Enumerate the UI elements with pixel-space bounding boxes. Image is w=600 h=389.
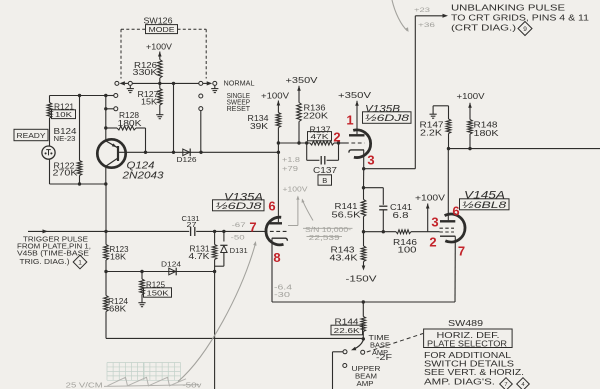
annotation +1.8 +79 [282, 157, 300, 173]
svg-text:3: 3 [431, 215, 438, 230]
junction C137 left [305, 141, 308, 144]
svg-text:9: 9 [523, 26, 527, 33]
junction base wire / plate line [277, 151, 280, 154]
wire unblanking riser [414, 16, 416, 169]
wire trigger to C131 [106, 230, 189, 232]
tube V145A grid row2 [440, 231, 455, 233]
svg-text:3: 3 [367, 153, 374, 168]
tube V135A cathode lead [271, 238, 273, 302]
junction contact row3 tap [104, 107, 107, 110]
svg-text:15K: 15K [141, 98, 158, 107]
svg-text:7: 7 [249, 220, 256, 235]
resistor R122 [53, 96, 82, 185]
pin 7 of V145A [458, 244, 465, 259]
switch SW126 right contact row3 [199, 107, 203, 153]
junction R126 line / mode wire [158, 82, 161, 85]
svg-text:22.6K: 22.6K [334, 326, 360, 335]
tube V145A cathode [440, 235, 455, 237]
pin 7 of V135A [249, 220, 256, 235]
pin 6 of V145A [452, 204, 459, 219]
svg-text:+100V: +100V [261, 92, 290, 101]
junction R137 right [337, 141, 340, 144]
tube V145A cathode lead [454, 236, 456, 302]
svg-text:D131: D131 [230, 246, 248, 255]
wire R136 to grid bus [298, 122, 300, 144]
ground at R127 [156, 112, 163, 119]
switch SW126 left contact row2 [106, 94, 118, 98]
annotation -50v [182, 381, 201, 389]
annotation -6.4 -30 [274, 285, 292, 300]
wire bus to trigger junction [105, 184, 107, 231]
wire R137 to grid [334, 142, 349, 144]
label V135B [365, 104, 400, 115]
junction R128 tap [104, 126, 107, 129]
svg-text:6: 6 [268, 199, 275, 214]
pin 2 of V145A [429, 235, 436, 250]
junction grid wire tap [277, 141, 280, 144]
svg-text:10K: 10K [55, 110, 72, 119]
diode D131 [215, 231, 248, 266]
svg-text:180K: 180K [118, 119, 143, 128]
svg-text:18K: 18K [110, 253, 127, 262]
value 10K boxed [52, 110, 76, 119]
wire R141 to grid bus [363, 217, 365, 232]
diode D124 [161, 262, 181, 276]
svg-text:(CRT DIAG.): (CRT DIAG.) [451, 24, 516, 33]
note for additional switch details [424, 350, 524, 386]
junction Q124 collector bus [104, 182, 107, 185]
junction R131 top [213, 230, 216, 233]
svg-text:½6BL8: ½6BL8 [462, 200, 507, 211]
waveform graticule [107, 363, 181, 381]
svg-text:27: 27 [187, 222, 197, 229]
svg-text:270K: 270K [53, 169, 79, 178]
svg-text:+79: +79 [282, 166, 298, 173]
wire cathode to unblanking riser [364, 168, 416, 170]
value 1/26DJ8 boxed (V135A) [213, 200, 265, 212]
svg-text:TRIG. DIAG.): TRIG. DIAG.) [20, 259, 70, 266]
label TIME BASE AMP [369, 333, 391, 357]
label NORMAL [224, 78, 255, 87]
svg-text:330K: 330K [133, 68, 159, 77]
svg-text:22,539: 22,539 [309, 233, 340, 242]
wire mode row [132, 82, 199, 84]
svg-text:-150V: -150V [346, 274, 377, 284]
resistor R137 [310, 126, 335, 146]
svg-text:4.7K: 4.7K [189, 252, 211, 261]
svg-text:+100V: +100V [283, 187, 308, 194]
junction R144 bottom [362, 337, 365, 340]
resistor R146 [393, 230, 418, 255]
wire R126 to R127 [159, 78, 161, 89]
value 1/26DJ8 boxed (V135B) [363, 112, 412, 124]
svg-text:B: B [322, 176, 327, 185]
svg-text:1: 1 [78, 259, 82, 266]
junction V135B cathode [362, 167, 365, 170]
annotation arrow gray top [392, 0, 409, 32]
annotation +23 +36 [414, 7, 436, 29]
wire grid bus to R146 [364, 231, 397, 233]
label SINGLE SWEEP RESET [227, 93, 251, 113]
junction R122 top [78, 94, 81, 97]
node +100V at V145A grid [415, 194, 446, 232]
svg-text:7: 7 [458, 244, 465, 259]
svg-text:+350V: +350V [338, 90, 371, 100]
wire Q124 base to V135A plate line [118, 151, 280, 153]
wire mode row to D126 wire [173, 83, 175, 152]
capacitor C137 loop [307, 143, 339, 165]
switch contact -2F [361, 350, 365, 354]
resistor R147 [420, 106, 451, 149]
svg-text:AMP: AMP [357, 379, 374, 388]
resistor R126 [133, 60, 163, 79]
svg-text:-50: -50 [231, 235, 246, 242]
wire trigger to R123 [105, 231, 107, 244]
svg-text:2N2043: 2N2043 [121, 170, 164, 181]
annotation S/N range [303, 225, 353, 242]
svg-text:6.8: 6.8 [393, 211, 410, 220]
junction R144 top [362, 300, 365, 303]
svg-text:+100V: +100V [457, 92, 486, 101]
label trigger pulse [17, 237, 91, 267]
label B124 NE-23 [54, 126, 77, 143]
svg-text:25 V/CM: 25 V/CM [66, 381, 103, 389]
label V145A [464, 190, 505, 202]
tube V135B envelope [353, 130, 370, 158]
resistor R121 [47, 96, 74, 119]
svg-text:6: 6 [452, 204, 459, 219]
node +350V at R136 [286, 75, 318, 103]
svg-text:+1.8: +1.8 [282, 157, 300, 164]
svg-text:7: 7 [504, 382, 507, 388]
node -150V [346, 262, 377, 284]
pin 3 of V145A [431, 215, 438, 230]
resistor R143 [330, 232, 366, 263]
junction C141 tap [362, 186, 365, 189]
junction C141 bottom [382, 230, 385, 233]
tube V135B grid [345, 142, 365, 144]
wire contact to lower left [333, 352, 344, 389]
svg-text:-6.4: -6.4 [274, 285, 292, 292]
svg-text:D126: D126 [177, 157, 197, 164]
svg-text:150K: 150K [147, 288, 169, 297]
resistor R127 [138, 89, 163, 107]
svg-text:½6DJ8: ½6DJ8 [365, 113, 410, 124]
svg-text:READY: READY [17, 131, 46, 140]
pin 1 of V135B [346, 113, 353, 128]
svg-text:2: 2 [429, 235, 436, 250]
svg-text:PLATE SELECTOR: PLATE SELECTOR [427, 339, 507, 348]
wire Q124 collector lead [105, 166, 107, 184]
svg-text:39K: 39K [250, 122, 269, 131]
switch SW126 label [144, 17, 178, 34]
svg-text:56.5K: 56.5K [332, 211, 362, 220]
wire R127 to ground [159, 105, 161, 112]
transistor Q124 [97, 139, 125, 167]
svg-text:2: 2 [333, 130, 340, 145]
resistor R136 [297, 103, 329, 122]
svg-text:180K: 180K [474, 129, 500, 138]
svg-text:-30: -30 [274, 292, 290, 299]
wire R146 to V145A grid [411, 231, 440, 233]
resistor R124 [104, 272, 129, 314]
svg-text:MODE: MODE [149, 25, 175, 34]
junction mode-D126 [172, 151, 175, 154]
junction D131 top [222, 230, 225, 233]
switch SW126 dashed link right [178, 29, 207, 78]
svg-text:NE-23: NE-23 [54, 134, 76, 143]
node unblanking output [415, 14, 448, 18]
tube V135A grid [264, 230, 287, 232]
junction R128 / base wire [144, 151, 147, 154]
resistor R128 [106, 111, 146, 152]
tube V135A plate [269, 152, 282, 223]
svg-text:AMP. DIAG'S.: AMP. DIAG'S. [424, 376, 495, 386]
tube V145A envelope [445, 214, 465, 242]
svg-text:NORMAL: NORMAL [224, 78, 255, 87]
capacitor C131 [182, 216, 200, 236]
label C137 [313, 165, 337, 175]
switch contact upper beam [343, 364, 347, 368]
junction R125 tap [140, 270, 143, 273]
svg-text:D124: D124 [161, 262, 181, 269]
tube V135B cathode [349, 150, 364, 153]
junction R131/D124 wire [213, 270, 216, 273]
switch SW126 right contact row2 [199, 94, 203, 98]
node +350V at V135B plate [338, 90, 371, 134]
pin 2 of V135B [333, 130, 340, 145]
diode D126 [177, 149, 197, 165]
junction mode row / D126 branch [172, 82, 175, 85]
node trigger input wire [28, 229, 106, 233]
label Q124 2N2043 [121, 161, 164, 182]
svg-text:-67: -67 [232, 222, 247, 229]
ground at R125 [138, 300, 145, 307]
junction V145A grid bus [362, 230, 365, 233]
svg-text:FROM PLATE,PIN 1,: FROM PLATE,PIN 1, [17, 244, 91, 251]
svg-text:UNBLANKING PULSE: UNBLANKING PULSE [451, 4, 565, 13]
resistor R123 [104, 245, 129, 262]
switch SW126 left contact row3 [106, 107, 118, 111]
pin 6 of V135A [268, 199, 275, 214]
switch arm time-base [351, 340, 363, 350]
value 150K boxed [144, 288, 172, 298]
value 47K boxed [308, 132, 332, 141]
neon lamp B124 [42, 146, 55, 159]
wire V135B grid bus [278, 142, 310, 144]
diamond reference 7 [500, 378, 513, 389]
annotation 25 V/CM [66, 381, 103, 389]
svg-text:43.4K: 43.4K [330, 254, 359, 263]
pin 3 of V135B [367, 153, 374, 168]
svg-text:SW489: SW489 [448, 319, 484, 328]
ground at SW126 right [211, 85, 218, 92]
tube V135B plate [349, 134, 365, 136]
tube V135A cathode [272, 238, 288, 241]
switch SW126 left wiper contacts [115, 81, 132, 85]
waveform ref B boxed [318, 175, 332, 185]
switch SW126 right wiper contacts [199, 81, 217, 85]
junction trigger tee [104, 230, 107, 233]
ground at SW126 left [127, 85, 134, 92]
svg-text:+36: +36 [418, 22, 436, 29]
diamond reference 9 [518, 22, 532, 36]
tube V135A envelope [266, 217, 284, 245]
wire C131 to V135A grid [196, 230, 263, 232]
switch contact time base amp [343, 350, 347, 354]
junction R122 bottom [78, 182, 81, 185]
svg-text:C137: C137 [313, 165, 337, 175]
resistor R148 [468, 120, 500, 149]
ground at R147 [430, 106, 449, 118]
svg-text:+100V: +100V [415, 194, 446, 203]
wire bottom left bus [50, 183, 107, 185]
label -2F [376, 353, 392, 362]
svg-text:½6DJ8: ½6DJ8 [216, 201, 263, 212]
wire R121 to B124 [49, 118, 51, 146]
junction contact row2 tap [104, 94, 107, 97]
wire cathode to C141 tap [363, 169, 365, 188]
wire R131 to junction [214, 260, 216, 272]
wire R124 to bottom rail [106, 312, 363, 339]
node +100V at R126 [146, 43, 173, 60]
resistor R125 [140, 272, 166, 300]
diamond reference 4 [517, 378, 530, 389]
svg-text:1: 1 [346, 113, 353, 128]
tube V135B cathode lead [363, 150, 365, 169]
node +100V at R134 [261, 92, 290, 113]
annotation -67 -50 [231, 222, 246, 242]
label unblanking pulse [451, 4, 590, 33]
switch SW126 dashed link left [121, 29, 146, 78]
junction single-sweep tap [199, 151, 202, 154]
wire R134 to plate node [277, 128, 279, 153]
wire R131 junction down [214, 272, 216, 389]
svg-text:+100V: +100V [146, 43, 173, 52]
annotation +100V gray at V135A [283, 187, 314, 226]
wire R123 to junction [105, 260, 107, 272]
svg-text:+23: +23 [414, 7, 431, 14]
dashed leader to SW489 [367, 334, 423, 353]
resistor R141 [332, 188, 366, 220]
junction Q124 emitter bus [104, 94, 107, 97]
junction R136 bottom [297, 141, 300, 144]
switch SW489 box [424, 329, 512, 348]
switch SW489 label [448, 319, 484, 328]
resistor R134 [248, 113, 281, 132]
label UPPER BEAM AMP [352, 364, 382, 388]
wire junction to R131 bottom [106, 271, 215, 273]
tube V145A grid row1 [440, 227, 455, 229]
pin 8 of V135A [273, 250, 280, 265]
wire Q124 emitter lead [105, 96, 107, 141]
waveform leader curve [178, 241, 257, 382]
diamond reference 1 [73, 255, 87, 269]
resistor R144 [335, 302, 366, 339]
svg-text:+350V: +350V [286, 75, 318, 85]
value 22.6K boxed [331, 325, 363, 335]
junction R123/R124/D124 [104, 270, 107, 273]
svg-text:47K: 47K [311, 132, 329, 141]
svg-text:RESET: RESET [227, 106, 251, 113]
junction R148 bottom [468, 147, 471, 150]
svg-text:TRIGGER PULSE: TRIGGER PULSE [23, 237, 88, 244]
svg-text:100: 100 [398, 246, 418, 255]
capacitor C141 [364, 188, 413, 232]
svg-text:8: 8 [273, 250, 280, 265]
svg-text:68K: 68K [109, 305, 127, 314]
svg-text:2.2K: 2.2K [420, 128, 443, 137]
label READY boxed [14, 129, 48, 140]
resistor R131 [189, 231, 217, 261]
label V135A [224, 192, 263, 204]
svg-text:-2F: -2F [376, 353, 392, 362]
svg-text:220K: 220K [303, 112, 329, 121]
svg-text:-50v: -50v [182, 381, 201, 389]
wire cathode bus [272, 301, 455, 303]
svg-text:TO CRT GRIDS, PINS 4 & 11: TO CRT GRIDS, PINS 4 & 11 [451, 14, 590, 23]
junction R147 bottom [447, 147, 450, 150]
wire plate bus right [449, 148, 600, 150]
wire top left bus [50, 95, 106, 97]
tube V145A plate [440, 149, 455, 222]
value 1/26BL8 boxed [460, 199, 510, 211]
waveform trace [104, 377, 199, 386]
wire B124 to bottom bus [49, 159, 51, 184]
node +100V at R148 [457, 92, 486, 120]
